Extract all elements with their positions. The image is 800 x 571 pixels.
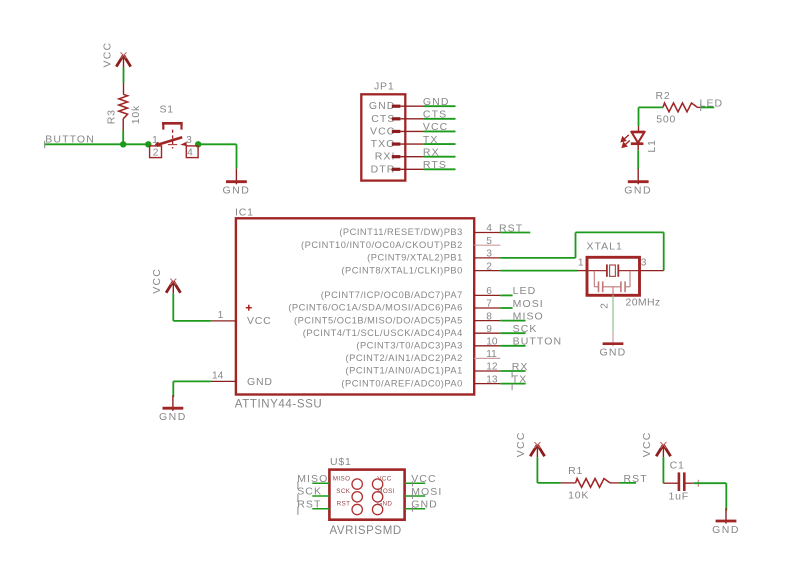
svg-text:SCK: SCK — [297, 486, 322, 498]
svg-text:(PCINT9/XTAL2)PB1: (PCINT9/XTAL2)PB1 — [367, 253, 463, 263]
svg-text:VCC: VCC — [377, 475, 392, 482]
svg-text:GND: GND — [712, 524, 740, 536]
svg-text:MISO: MISO — [297, 473, 328, 485]
svg-text:MOSI: MOSI — [513, 298, 544, 310]
svg-text:9: 9 — [486, 324, 492, 335]
svg-text:(PCINT7/ICP/OC0B/ADC7)PA7: (PCINT7/ICP/OC0B/ADC7)PA7 — [321, 290, 463, 300]
svg-text:XTAL1: XTAL1 — [587, 241, 623, 253]
svg-text:8: 8 — [486, 311, 492, 322]
svg-text:RST: RST — [499, 222, 523, 234]
svg-text:GND: GND — [411, 499, 438, 511]
svg-text:11: 11 — [486, 349, 497, 360]
svg-text:14: 14 — [212, 370, 224, 381]
svg-text:(PCINT6/OC1A/SDA/MOSI/ADC6)PA6: (PCINT6/OC1A/SDA/MOSI/ADC6)PA6 — [288, 303, 462, 313]
svg-text:(PCINT10/INT0/OC0A/CKOUT)PB2: (PCINT10/INT0/OC0A/CKOUT)PB2 — [301, 240, 463, 250]
svg-text:R3: R3 — [106, 109, 118, 124]
svg-text:1uF: 1uF — [669, 490, 690, 502]
svg-text:VCC: VCC — [641, 431, 653, 457]
svg-text:(PCINT11/RESET/DW)PB3: (PCINT11/RESET/DW)PB3 — [339, 227, 462, 237]
svg-text:IC1: IC1 — [235, 207, 254, 219]
svg-text:BUTTON: BUTTON — [513, 336, 563, 348]
svg-text:7: 7 — [486, 299, 492, 310]
svg-text:2: 2 — [486, 261, 492, 272]
svg-text:MOSI: MOSI — [411, 486, 442, 498]
svg-text:RX: RX — [512, 361, 529, 373]
svg-text:AVRISPSMD: AVRISPSMD — [330, 525, 402, 537]
svg-text:1: 1 — [152, 135, 158, 146]
svg-text:TXO: TXO — [371, 138, 396, 150]
svg-text:(PCINT8/XTAL1/CLKI)PB0: (PCINT8/XTAL1/CLKI)PB0 — [341, 265, 462, 275]
svg-text:1: 1 — [218, 310, 224, 321]
svg-text:(PCINT4/T1/SCL/USCK/ADC4)PA4: (PCINT4/T1/SCL/USCK/ADC4)PA4 — [303, 328, 463, 338]
svg-text:R1: R1 — [568, 465, 583, 477]
svg-text:4: 4 — [187, 147, 193, 158]
svg-text:GND: GND — [222, 185, 250, 197]
svg-text:4: 4 — [486, 223, 492, 234]
svg-text:1: 1 — [578, 257, 584, 268]
svg-text:RST: RST — [297, 498, 321, 510]
svg-text:LED: LED — [700, 97, 724, 109]
svg-text:GND: GND — [423, 96, 450, 108]
svg-text:GND: GND — [600, 347, 627, 359]
svg-text:GND: GND — [377, 501, 392, 508]
svg-text:U$1: U$1 — [330, 456, 352, 468]
svg-text:TX: TX — [512, 373, 528, 385]
svg-text:GND: GND — [159, 411, 187, 423]
svg-text:(PCINT3/T0/ADC3)PA3: (PCINT3/T0/ADC3)PA3 — [356, 341, 462, 351]
svg-text:3: 3 — [486, 249, 492, 260]
svg-text:10k: 10k — [130, 105, 142, 124]
svg-text:RST: RST — [337, 501, 351, 508]
svg-text:SCK: SCK — [336, 488, 351, 495]
svg-text:ATTINY44-SSU: ATTINY44-SSU — [235, 399, 323, 411]
svg-text:(PCINT1/AIN0/ADC1)PA1: (PCINT1/AIN0/ADC1)PA1 — [346, 366, 463, 376]
svg-text:10K: 10K — [568, 490, 589, 502]
svg-text:DTR: DTR — [371, 163, 396, 175]
svg-text:2: 2 — [153, 148, 159, 159]
svg-text:L1: L1 — [646, 139, 658, 152]
svg-text:R2: R2 — [656, 90, 671, 102]
svg-text:13: 13 — [486, 374, 498, 385]
svg-text:TX: TX — [423, 134, 439, 146]
svg-text:(PCINT0/AREF/ADC0)PA0: (PCINT0/AREF/ADC0)PA0 — [341, 378, 462, 388]
svg-text:GND: GND — [369, 100, 396, 112]
svg-text:5: 5 — [486, 236, 492, 247]
svg-text:JP1: JP1 — [374, 81, 395, 93]
svg-text:VCC: VCC — [370, 125, 395, 137]
svg-text:CTS: CTS — [423, 109, 447, 121]
svg-text:12: 12 — [486, 362, 498, 373]
svg-text:3: 3 — [641, 257, 647, 268]
svg-text:MOSI: MOSI — [377, 488, 395, 495]
svg-text:LED: LED — [513, 285, 537, 297]
svg-text:GND: GND — [624, 185, 652, 197]
svg-text:RTS: RTS — [423, 159, 447, 171]
svg-text:VCC: VCC — [247, 315, 272, 327]
svg-text:6: 6 — [486, 286, 492, 297]
svg-text:20MHz: 20MHz — [626, 296, 661, 308]
svg-text:MISO: MISO — [513, 310, 544, 322]
svg-text:(PCINT5/OC1B/MISO/DO/ADC5)PA5: (PCINT5/OC1B/MISO/DO/ADC5)PA5 — [294, 315, 463, 325]
svg-text:2: 2 — [600, 303, 611, 309]
svg-text:RX: RX — [423, 146, 440, 158]
svg-text:MISO: MISO — [333, 475, 351, 482]
svg-text:BUTTON: BUTTON — [45, 133, 95, 145]
svg-text:VCC: VCC — [423, 121, 448, 133]
svg-text:SCK: SCK — [513, 323, 538, 335]
svg-text:S1: S1 — [160, 103, 174, 115]
svg-text:VCC: VCC — [151, 268, 163, 294]
svg-text:GND: GND — [247, 376, 273, 388]
svg-text:VCC: VCC — [515, 431, 527, 457]
svg-text:VCC: VCC — [411, 473, 436, 485]
svg-text:10: 10 — [486, 337, 498, 348]
svg-text:VCC: VCC — [101, 42, 113, 68]
svg-text:(PCINT2/AIN1/ADC2)PA2: (PCINT2/AIN1/ADC2)PA2 — [346, 353, 463, 363]
svg-text:3: 3 — [186, 135, 192, 146]
svg-text:RST: RST — [624, 473, 648, 485]
svg-text:500: 500 — [656, 114, 676, 126]
svg-text:C1: C1 — [670, 460, 685, 472]
